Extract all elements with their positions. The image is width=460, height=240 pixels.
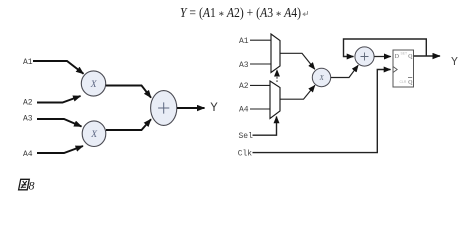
svg-text:X: X — [90, 130, 98, 140]
wire Sel to mux M2 select — [253, 117, 277, 136]
mux M2 — [270, 81, 280, 119]
figure label 图8 — [19, 179, 35, 193]
multiplier X3 — [312, 68, 330, 86]
wire Clk to flip-flop clock — [253, 70, 391, 153]
svg-text:D: D — [395, 54, 399, 60]
svg-text:A3: A3 — [239, 61, 249, 70]
flip-flop pin Qbar — [408, 78, 413, 87]
wire A2 to mux M2 — [250, 84, 270, 86]
mux M1 — [271, 34, 280, 73]
wire A4 to mux M2 — [250, 108, 270, 110]
multiplier X1 — [81, 71, 105, 96]
svg-text:Y: Y — [451, 56, 458, 69]
svg-text:SET: SET — [401, 52, 408, 56]
flip-flop clock triangle — [393, 67, 397, 73]
wire adder S2 to flip-flop D — [374, 56, 391, 58]
adder S2 — [355, 47, 374, 66]
adder S1 — [151, 91, 177, 126]
wire A3 to multiplier X2 — [37, 119, 82, 127]
wire mux M1 to multiplier X3 — [281, 53, 315, 69]
wire A3 to mux M1 — [250, 63, 271, 65]
wire A4 to multiplier X2 — [37, 146, 83, 153]
wire A1 to mux M1 — [250, 39, 271, 41]
dashed select wire to mux M1 — [276, 70, 278, 82]
svg-text:Sel: Sel — [239, 132, 254, 141]
svg-text:A2: A2 — [239, 82, 249, 91]
wire multiplier X1 to adder S1 — [106, 86, 151, 98]
flip-flop U1 — [393, 50, 414, 87]
svg-text:Y: Y — [210, 101, 218, 115]
svg-text:A1: A1 — [239, 37, 249, 46]
wire mux M2 to multiplier X3 — [281, 85, 315, 99]
wire flip-flop Q to output Y — [414, 55, 440, 57]
svg-text:A1: A1 — [23, 58, 33, 67]
svg-text:X: X — [90, 80, 98, 90]
wire multiplier X2 to adder S1 — [106, 119, 151, 130]
svg-text:Clk: Clk — [238, 149, 253, 158]
wire adder S1 to output Y — [177, 107, 205, 109]
feedback wire from Q to adder S2 — [344, 39, 427, 57]
paragraph return mark — [303, 11, 308, 16]
svg-text:CLR: CLR — [400, 80, 407, 84]
svg-text:A4: A4 — [23, 150, 33, 159]
wire multiplier X3 to adder S2 — [331, 65, 358, 77]
svg-text:A4: A4 — [239, 106, 249, 115]
svg-text:Y = (A1 * A2) + (A3 * A4): Y = (A1 * A2) + (A3 * A4) — [180, 5, 301, 22]
svg-text:A2: A2 — [23, 99, 33, 108]
svg-text:A3: A3 — [23, 115, 33, 124]
svg-text:8: 8 — [29, 179, 35, 193]
wire A2 to multiplier X1 — [37, 96, 81, 103]
multiplier X2 — [82, 121, 106, 147]
wire A1 to multiplier X1 — [33, 61, 84, 74]
svg-text:X: X — [319, 74, 325, 82]
